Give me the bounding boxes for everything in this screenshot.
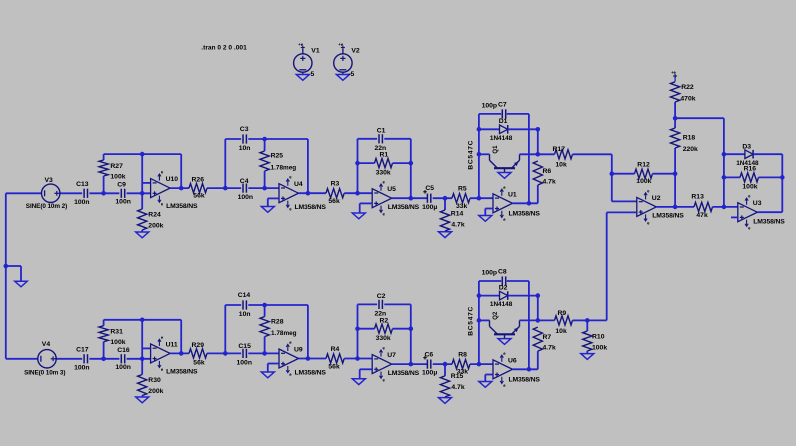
svg-text:33k: 33k bbox=[456, 203, 468, 210]
svg-text:R27: R27 bbox=[110, 163, 123, 170]
svg-text:330k: 330k bbox=[376, 169, 391, 176]
svg-text:R2: R2 bbox=[380, 317, 389, 324]
svg-text:10n: 10n bbox=[239, 145, 251, 152]
svg-text:100n: 100n bbox=[74, 199, 90, 206]
svg-text:Q2: Q2 bbox=[493, 311, 499, 320]
svg-text:+e: +e bbox=[671, 70, 676, 75]
svg-text:U10: U10 bbox=[166, 176, 179, 183]
svg-text:R16: R16 bbox=[744, 165, 757, 172]
svg-text:C16: C16 bbox=[117, 347, 130, 354]
svg-text:R9: R9 bbox=[558, 310, 567, 317]
svg-text:5: 5 bbox=[311, 71, 315, 78]
svg-text:4.7k: 4.7k bbox=[451, 384, 464, 391]
svg-text:R10: R10 bbox=[592, 334, 605, 341]
svg-text:100k: 100k bbox=[592, 345, 607, 352]
svg-text:1N4148: 1N4148 bbox=[490, 135, 513, 142]
svg-text:33k: 33k bbox=[457, 369, 469, 376]
svg-text:100k: 100k bbox=[110, 174, 125, 181]
svg-text:R25: R25 bbox=[271, 153, 284, 160]
svg-text:.tran 0 2 0 .001: .tran 0 2 0 .001 bbox=[201, 45, 247, 52]
svg-text:C1: C1 bbox=[377, 127, 386, 134]
svg-text:R24: R24 bbox=[148, 211, 161, 218]
svg-text:R6: R6 bbox=[543, 168, 552, 175]
svg-text:-5: -5 bbox=[348, 71, 354, 78]
svg-text:56k: 56k bbox=[328, 198, 340, 205]
svg-text:R3: R3 bbox=[331, 180, 340, 187]
svg-text:4.7k: 4.7k bbox=[451, 222, 464, 229]
svg-text:C4: C4 bbox=[240, 178, 249, 185]
svg-text:R22: R22 bbox=[681, 84, 694, 91]
svg-text:10n: 10n bbox=[239, 311, 251, 318]
svg-text:C17: C17 bbox=[76, 346, 89, 353]
svg-text:LM358/NS: LM358/NS bbox=[753, 219, 785, 226]
svg-text:330k: 330k bbox=[376, 335, 391, 342]
svg-text:LM358/NS: LM358/NS bbox=[388, 370, 420, 377]
svg-text:100µ: 100µ bbox=[422, 204, 437, 211]
svg-text:R8: R8 bbox=[458, 351, 467, 358]
svg-text:R5: R5 bbox=[458, 186, 467, 193]
svg-text:U2: U2 bbox=[652, 195, 661, 202]
svg-text:R12: R12 bbox=[637, 162, 650, 169]
svg-text:100k: 100k bbox=[110, 339, 125, 346]
svg-text:LM358/NS: LM358/NS bbox=[166, 368, 198, 375]
svg-text:SINE(0 10m 2): SINE(0 10m 2) bbox=[26, 203, 67, 210]
svg-text:U4: U4 bbox=[294, 181, 303, 188]
svg-text:470k: 470k bbox=[680, 95, 695, 102]
svg-text:U1: U1 bbox=[508, 191, 517, 198]
svg-text:100n: 100n bbox=[237, 360, 253, 367]
svg-text:R17: R17 bbox=[553, 146, 566, 153]
svg-text:R30: R30 bbox=[148, 377, 161, 384]
svg-text:4.7k: 4.7k bbox=[543, 345, 556, 352]
svg-text:C15: C15 bbox=[238, 343, 251, 350]
svg-text:R29: R29 bbox=[192, 342, 205, 349]
svg-text:100p: 100p bbox=[482, 270, 498, 277]
svg-text:220k: 220k bbox=[683, 146, 698, 153]
svg-text:1.78meg: 1.78meg bbox=[271, 164, 297, 171]
svg-text:Q1: Q1 bbox=[493, 145, 499, 154]
svg-text:V3: V3 bbox=[45, 177, 54, 184]
svg-text:10k: 10k bbox=[555, 328, 567, 335]
svg-text:100n: 100n bbox=[238, 194, 254, 201]
svg-text:V4: V4 bbox=[42, 341, 51, 348]
svg-text:C9: C9 bbox=[117, 181, 126, 188]
svg-text:56k: 56k bbox=[193, 359, 205, 366]
svg-text:U5: U5 bbox=[387, 186, 396, 193]
svg-text:100n: 100n bbox=[115, 199, 130, 206]
svg-text:U6: U6 bbox=[508, 357, 517, 364]
svg-text:100n: 100n bbox=[115, 364, 130, 371]
svg-text:BC547C: BC547C bbox=[468, 306, 475, 336]
svg-text:R4: R4 bbox=[331, 346, 340, 353]
svg-text:D1: D1 bbox=[499, 118, 508, 125]
svg-text:C2: C2 bbox=[377, 293, 386, 300]
svg-text:LM358/NS: LM358/NS bbox=[509, 376, 541, 383]
svg-text:U9: U9 bbox=[294, 347, 303, 354]
svg-text:LM358/NS: LM358/NS bbox=[295, 369, 327, 376]
svg-text:U7: U7 bbox=[387, 352, 396, 359]
svg-text:47k: 47k bbox=[696, 212, 708, 219]
svg-text:C5: C5 bbox=[425, 185, 434, 192]
svg-text:10k: 10k bbox=[555, 162, 567, 169]
svg-text:100n: 100n bbox=[74, 365, 90, 372]
svg-text:R1: R1 bbox=[380, 152, 389, 159]
svg-text:200k: 200k bbox=[148, 388, 163, 395]
svg-text:R13: R13 bbox=[691, 194, 704, 201]
svg-text:D3: D3 bbox=[742, 144, 751, 151]
svg-text:100µ: 100µ bbox=[422, 370, 437, 377]
svg-text:200k: 200k bbox=[148, 222, 163, 229]
svg-text:V1: V1 bbox=[311, 47, 320, 54]
svg-text:BC547C: BC547C bbox=[468, 140, 475, 170]
svg-text:+e: +e bbox=[338, 42, 343, 47]
svg-text:R31: R31 bbox=[110, 329, 123, 336]
svg-text:LM358/NS: LM358/NS bbox=[509, 210, 541, 217]
svg-text:U11: U11 bbox=[166, 341, 178, 348]
svg-text:LM358/NS: LM358/NS bbox=[388, 204, 420, 211]
svg-text:R26: R26 bbox=[192, 177, 205, 184]
svg-text:U3: U3 bbox=[753, 200, 762, 207]
svg-text:LM358/NS: LM358/NS bbox=[652, 213, 684, 220]
svg-text:1.78meg: 1.78meg bbox=[271, 330, 297, 337]
svg-text:C7: C7 bbox=[498, 102, 507, 109]
svg-text:+e: +e bbox=[298, 42, 303, 47]
svg-text:C13: C13 bbox=[76, 181, 89, 188]
svg-text:56k: 56k bbox=[328, 363, 340, 370]
svg-text:100p: 100p bbox=[482, 103, 498, 110]
svg-text:LM358/NS: LM358/NS bbox=[295, 204, 327, 211]
svg-text:R7: R7 bbox=[543, 334, 552, 341]
svg-text:R18: R18 bbox=[683, 135, 696, 142]
svg-text:SINE(0 10m 3): SINE(0 10m 3) bbox=[24, 370, 65, 377]
svg-text:100k: 100k bbox=[636, 178, 651, 185]
svg-text:1N4148: 1N4148 bbox=[490, 301, 513, 308]
svg-text:LM358/NS: LM358/NS bbox=[166, 203, 198, 210]
svg-text:4.7k: 4.7k bbox=[543, 179, 556, 186]
svg-text:V2: V2 bbox=[351, 47, 360, 54]
svg-text:D2: D2 bbox=[499, 284, 508, 291]
svg-text:R28: R28 bbox=[271, 319, 284, 326]
svg-text:C6: C6 bbox=[425, 352, 434, 359]
svg-text:100k: 100k bbox=[742, 184, 757, 191]
svg-text:C8: C8 bbox=[498, 269, 507, 276]
svg-text:56k: 56k bbox=[193, 193, 205, 200]
svg-text:R14: R14 bbox=[451, 210, 464, 217]
svg-text:C14: C14 bbox=[238, 292, 251, 299]
svg-text:C3: C3 bbox=[240, 126, 249, 133]
